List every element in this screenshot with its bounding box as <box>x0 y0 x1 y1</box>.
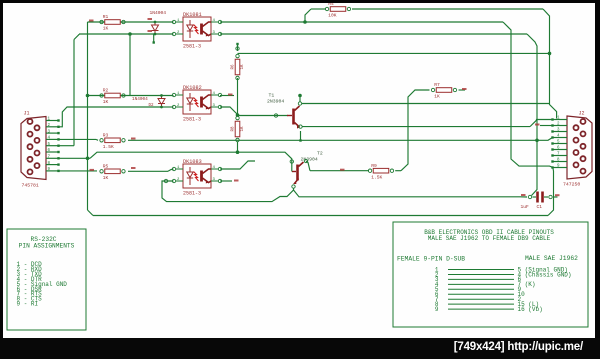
svg-text:9: 9 <box>48 168 51 172</box>
svg-text:1uF: 1uF <box>521 204 530 210</box>
svg-text:T2: T2 <box>317 151 323 157</box>
svg-text:DK1081: DK1081 <box>183 12 202 18</box>
svg-text:J1: J1 <box>24 111 30 117</box>
svg-text:747250: 747250 <box>563 182 580 188</box>
svg-text:1K: 1K <box>103 99 109 105</box>
svg-text:FEMALE 9-PIN D-SUB: FEMALE 9-PIN D-SUB <box>397 256 465 263</box>
svg-text:1K: 1K <box>434 94 440 100</box>
svg-text:DK1083: DK1083 <box>183 159 202 165</box>
svg-text:16 (Vb): 16 (Vb) <box>518 306 543 313</box>
svg-text:2581-3: 2581-3 <box>183 191 201 197</box>
svg-text:PIN ASSIGNMENTS: PIN ASSIGNMENTS <box>19 242 75 249</box>
svg-text:MALE SAE J1962: MALE SAE J1962 <box>525 255 578 262</box>
svg-text:1N4004: 1N4004 <box>132 97 148 102</box>
svg-text:1.5K: 1.5K <box>103 144 114 150</box>
svg-text:2581-3: 2581-3 <box>183 44 201 50</box>
svg-text:R9: R9 <box>371 163 377 169</box>
svg-text:R7: R7 <box>434 82 440 88</box>
svg-text:2N3904: 2N3904 <box>267 99 284 105</box>
svg-text:745781: 745781 <box>22 183 39 189</box>
svg-text:J2: J2 <box>579 111 585 117</box>
svg-text:2581-3: 2581-3 <box>183 117 201 123</box>
svg-text:9: 9 <box>435 306 439 313</box>
svg-text:R1: R1 <box>103 14 109 20</box>
svg-text:R5: R5 <box>103 164 109 170</box>
svg-text:R6: R6 <box>232 64 236 70</box>
svg-text:T1: T1 <box>269 93 275 99</box>
svg-text:4 (Chassis GND): 4 (Chassis GND) <box>518 271 572 278</box>
svg-text:1K: 1K <box>241 126 245 132</box>
svg-text:R8: R8 <box>232 126 236 132</box>
svg-text:4: 4 <box>48 137 51 141</box>
svg-text:R4: R4 <box>328 3 334 7</box>
svg-text:C1: C1 <box>537 204 543 210</box>
svg-text:1.5K: 1.5K <box>371 174 382 180</box>
svg-text:MALE SAE J1962 TO FEMALE DB9 C: MALE SAE J1962 TO FEMALE DB9 CABLE <box>428 235 551 242</box>
svg-text:DK1082: DK1082 <box>183 85 202 91</box>
svg-text:9 - RI: 9 - RI <box>17 301 39 308</box>
svg-text:R3: R3 <box>103 133 109 139</box>
svg-text:10K: 10K <box>328 13 337 19</box>
svg-text:1K: 1K <box>103 26 109 32</box>
svg-text:1K: 1K <box>103 175 109 181</box>
svg-text:R2: R2 <box>103 88 109 94</box>
svg-text:1N4004: 1N4004 <box>150 10 167 16</box>
svg-text:1K: 1K <box>241 64 245 70</box>
